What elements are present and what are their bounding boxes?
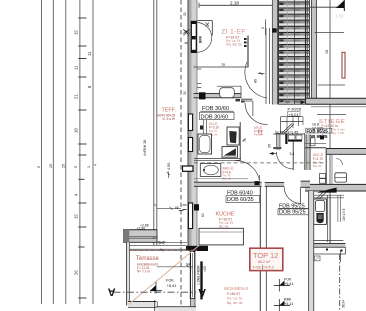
svg-text:N: 5 a W: N: 5 a W <box>163 117 175 121</box>
thick black wall bar above terrace door <box>186 246 208 251</box>
bathtub <box>198 134 212 154</box>
niche box right of wall <box>311 138 316 146</box>
staircase treads <box>279 2 310 103</box>
svg-text:26: 26 <box>74 270 79 275</box>
room divider wall lines <box>259 187 261 311</box>
shaft side lines <box>310 191 312 242</box>
small black marks right of label <box>244 38 247 40</box>
diagonals bottom right zone <box>315 192 324 201</box>
window W3 sill marks <box>183 204 187 206</box>
entry door arc <box>284 187 300 203</box>
tiny box bottom right <box>314 256 320 261</box>
slope triangle on band <box>316 188 336 193</box>
svg-text:1.OBL.FBOK: 1.OBL.FBOK <box>196 264 200 285</box>
svg-text:Wq: Bq: de:: Wq: Bq: de: <box>226 43 243 47</box>
wall x306 vertical <box>306 134 310 170</box>
svg-text:38.94: 38.94 <box>342 300 346 308</box>
double wall right of rooms going to bottom <box>309 191 314 311</box>
dimension line V1 <box>40 0 42 304</box>
wall band y242 right <box>313 240 343 242</box>
svg-text:21: 21 <box>74 94 79 99</box>
terrace bottom wall <box>128 302 157 308</box>
small door arc in right room <box>336 159 343 166</box>
svg-text:70: 70 <box>221 63 225 67</box>
svg-text:15: 15 <box>74 214 79 219</box>
shaft black wall bar <box>285 134 287 144</box>
svg-text:2.18: 2.18 <box>230 1 239 6</box>
svg-text:TOP 12: TOP 12 <box>253 251 278 260</box>
wall stub below terrace door <box>190 299 195 311</box>
shaft boxes <box>289 135 296 140</box>
hall wall black block <box>255 181 260 185</box>
door arc corridor lower <box>245 103 268 125</box>
line x340 below <box>340 250 342 262</box>
svg-text:3: 3 <box>261 27 265 29</box>
lines from DOB box down <box>202 120 204 134</box>
svg-text:25: 25 <box>62 164 66 168</box>
small room wall x326 <box>325 149 327 191</box>
svg-text:5: 5 <box>37 166 41 168</box>
svg-text:25: 25 <box>49 164 53 168</box>
shaft zone gray band <box>277 133 280 149</box>
svg-text:×25: ×25 <box>203 266 207 272</box>
shower box <box>227 127 239 145</box>
svg-text:FOK: FOK <box>166 279 174 283</box>
small room red label <box>313 153 324 168</box>
window W1 in left wall <box>191 21 196 52</box>
svg-text:2m: 2m <box>285 100 290 104</box>
window W2 in left wall <box>188 114 192 131</box>
terrace bottom step <box>154 300 156 311</box>
svg-text:4: 4 <box>94 164 98 166</box>
hall wall band segment 3 <box>301 181 310 187</box>
dash-dot boundary right <box>339 254 341 311</box>
section line A-A <box>114 291 197 293</box>
svg-text:65.2 m²: 65.2 m² <box>258 260 271 264</box>
svg-text:Bq: de: de: Bq: de: de <box>227 301 243 305</box>
radiator right <box>335 173 347 182</box>
svg-text:35: 35 <box>268 144 272 148</box>
staircase background <box>279 0 310 105</box>
small black square <box>320 136 324 140</box>
long dashed line mid plan <box>194 162 326 164</box>
wall line right of shower <box>239 122 241 160</box>
horizontal line y32 <box>315 31 345 33</box>
black bar right of terrace door <box>200 261 202 299</box>
svg-text:18: 18 <box>74 128 79 133</box>
opening X mark on wall <box>184 30 190 36</box>
dimension number on chain V5 <box>87 51 92 88</box>
shaft thick mid line <box>288 140 302 142</box>
tick marks on dimension line V4 <box>78 18 86 298</box>
Terrasse red label <box>136 256 160 273</box>
stair right wall <box>312 0 317 100</box>
svg-text:RBK: RBK <box>284 298 292 302</box>
door arc corridor upper <box>245 62 267 98</box>
terrace left wall <box>127 242 130 305</box>
left arrow marker <box>269 152 274 155</box>
svg-text:15: 15 <box>74 30 79 35</box>
svg-text:WOHNEN-E: WOHNEN-E <box>224 286 248 291</box>
shaft bottom dark band <box>273 147 281 149</box>
horizontal sill bar at dashed level <box>183 166 194 171</box>
corridor wall lines by stair <box>265 28 267 104</box>
KUECHE red label <box>216 211 235 229</box>
TOP 12 red box <box>250 248 283 270</box>
svg-text:5: 5 <box>74 166 78 168</box>
vanity counter <box>200 164 221 177</box>
threshold black rect on corridor wall <box>272 28 276 32</box>
svg-text:80: 80 <box>254 79 258 83</box>
svg-text:4×FBH 38: 4×FBH 38 <box>143 140 147 156</box>
wall line left part y147-149 <box>305 147 326 149</box>
exterior wall left (top run) <box>188 0 197 247</box>
svg-text:4.50: 4.50 <box>167 163 171 170</box>
pink dashed line across terrace <box>128 249 197 251</box>
svg-text:60: 60 <box>201 213 205 217</box>
terrace top wall band <box>123 230 157 237</box>
wall line under fixtures <box>194 158 241 160</box>
elevator shaft outer <box>314 199 327 224</box>
svg-text:A: A <box>108 286 116 298</box>
svg-text:30: 30 <box>183 12 187 16</box>
level marker RBOK right lower <box>274 298 294 311</box>
vertical line x330 <box>329 0 331 244</box>
small marks right of sink <box>236 99 241 101</box>
svg-text:Rq: 7 OK: Rq: 7 OK <box>332 131 344 135</box>
box below band <box>313 247 345 254</box>
svg-text:1: 1 <box>87 166 91 168</box>
svg-text:11: 11 <box>87 51 92 56</box>
corridor top line <box>194 66 249 68</box>
svg-text:1.50: 1.50 <box>335 14 344 19</box>
stair left wall band <box>272 0 280 105</box>
svg-text:16×17.9: 16×17.9 <box>342 209 346 221</box>
svg-text:Pa: de: Pa: de <box>254 132 263 136</box>
counter line over sink <box>217 85 241 87</box>
dim rotated text above terrace right <box>167 163 171 178</box>
svg-text:15: 15 <box>325 50 329 54</box>
boundary corner bottom <box>129 244 186 246</box>
svg-text:3.4: 3.4 <box>290 152 295 156</box>
window W3 in left wall <box>188 203 192 229</box>
dimension line V4 <box>79 0 81 304</box>
hall wall band segment 1 <box>194 182 262 186</box>
sink rounded <box>220 88 235 98</box>
bath top wall band <box>194 94 242 98</box>
terrace door window <box>190 252 194 299</box>
door leaf vertical <box>292 141 294 170</box>
second window bar left wall <box>188 138 192 152</box>
wall stub x248 <box>247 36 249 68</box>
TEFF red text upper left <box>158 108 176 122</box>
door arc shaft room <box>277 152 294 169</box>
double door swing at left wall window <box>197 23 212 38</box>
horizontal line y85 <box>318 84 345 86</box>
svg-text:F=65.2: F=65.2 <box>253 265 264 269</box>
terrace dimension line continue <box>157 241 187 243</box>
red wall bar right <box>342 52 345 78</box>
kitchen corner black column <box>194 204 199 210</box>
svg-text:KÜCHE: KÜCHE <box>216 211 235 218</box>
svg-text:11: 11 <box>74 65 79 70</box>
boundary double line <box>153 0 155 245</box>
stair direction arrow at bottom <box>301 100 306 104</box>
top room closet lines <box>197 20 212 22</box>
svg-text:+5.41: +5.41 <box>167 283 178 288</box>
red text WC room <box>223 167 235 181</box>
svg-text:N= 7.7 m: N= 7.7 m <box>137 269 150 273</box>
window W1 sill marks <box>185 30 188 32</box>
bottom room red label <box>224 286 248 305</box>
lower flight stub below landing <box>281 116 303 118</box>
short dim line y208 <box>157 207 181 209</box>
stair stringer lines <box>305 0 307 104</box>
section arrow flag <box>336 0 345 8</box>
right margin wall band y148-154 <box>326 149 366 155</box>
svg-text:Pa: La: Te: Pa: La: Te <box>227 297 242 301</box>
svg-text:BRK: BRK <box>199 35 203 43</box>
x ticks on terrace wall <box>159 241 165 244</box>
property dashed line <box>180 0 182 311</box>
svg-text:Terrasse: Terrasse <box>136 256 160 262</box>
elevator car dark <box>316 213 323 223</box>
stair walking line <box>293 0 295 104</box>
stair break diagonal <box>281 124 292 135</box>
dimension numbers rotated on chain V4 <box>74 30 79 275</box>
faucet mark <box>200 126 203 130</box>
level marker FBOK right <box>274 278 294 292</box>
svg-text:F=40.07: F=40.07 <box>227 292 240 296</box>
terrace right dim tick <box>157 266 193 268</box>
black block in bath wall <box>199 92 206 99</box>
pre-wall line above hall band <box>194 178 248 180</box>
svg-text:FOK: FOK <box>284 278 292 282</box>
hall wall band segment 2 <box>265 183 285 187</box>
svg-text:+2.86: +2.86 <box>140 224 149 228</box>
terrace diagonal <box>129 246 200 305</box>
bottom wall band right margin y184-191 <box>305 184 366 191</box>
room label ZIMMER EF (red) <box>222 30 246 47</box>
bath door arc <box>235 160 260 180</box>
dimension line V3 <box>65 0 67 304</box>
shaft top line <box>273 133 304 135</box>
top dimension line <box>199 4 276 6</box>
dimension line V2 <box>52 0 54 304</box>
tiny chain labels row y=165 <box>37 164 98 168</box>
svg-text:30: 30 <box>183 91 187 95</box>
dimension line V5 <box>92 0 94 304</box>
svg-text:Bq: de:: Bq: de: <box>313 164 323 168</box>
line x304.6 <box>304 133 306 170</box>
elevator cabin <box>315 201 324 212</box>
kitchen counter <box>199 228 243 245</box>
landing wall band right (y98-104) <box>306 98 366 104</box>
WC fixture <box>320 174 326 179</box>
svg-text:N=5.2: N=5.2 <box>265 265 274 269</box>
vanity basin ellipse <box>204 165 219 175</box>
fixture box lower <box>222 147 238 158</box>
STIEGE red label <box>319 119 346 135</box>
top-right horizontal line with section arrow <box>310 6 343 8</box>
lines below band <box>311 194 344 196</box>
stair bottom landing line <box>279 103 310 105</box>
